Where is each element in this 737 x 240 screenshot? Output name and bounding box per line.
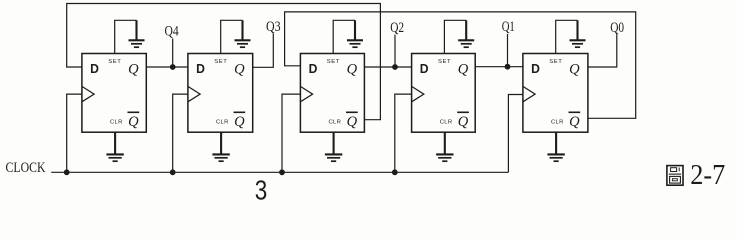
D flip-flop U5	[523, 54, 588, 133]
svg-text:Q4: Q4	[165, 24, 179, 40]
wire node Q1 tap	[507, 34, 509, 67]
svg-text:SET: SET	[214, 59, 227, 65]
svg-text:Q: Q	[234, 62, 245, 78]
wire Q U4 to D U5	[475, 66, 523, 68]
node CLOCK label	[6, 160, 47, 176]
ground (CLR U2)	[212, 132, 229, 161]
U1 body	[82, 54, 146, 133]
wire Q U2 to node Q3	[253, 34, 274, 68]
wire SET U1 to ground	[115, 20, 137, 53]
svg-text:Q: Q	[128, 62, 139, 78]
svg-text:SET: SET	[108, 59, 121, 65]
ground (CLR U4)	[436, 132, 453, 161]
node Q0 label	[610, 20, 624, 36]
svg-text:Q: Q	[458, 114, 469, 130]
wire CLOCK bus	[51, 171, 508, 173]
wire CLOCK to clk U5	[508, 95, 523, 173]
svg-text:SET: SET	[438, 59, 451, 65]
ground (CLR U5)	[547, 132, 564, 161]
svg-text:D: D	[531, 61, 540, 76]
svg-text:Q3: Q3	[266, 19, 281, 35]
svg-text:CLR: CLR	[110, 119, 123, 125]
node clk U1 junction	[64, 169, 70, 175]
svg-text:CLR: CLR	[551, 119, 564, 125]
ground (SET U4)	[458, 20, 474, 47]
svg-text:D: D	[90, 61, 99, 76]
svg-text:CLR: CLR	[329, 119, 342, 125]
U2 clock input triangle	[188, 86, 200, 101]
wire SET U5 to ground	[556, 20, 578, 53]
wire SET U3 to ground	[333, 20, 355, 53]
node Q3 label	[266, 19, 281, 35]
node Q1 label	[502, 19, 515, 35]
node clk U4 junction	[392, 169, 398, 175]
node clk U2 junction	[170, 169, 176, 175]
wire Q U3 to D U4	[364, 66, 411, 68]
caption 2-7	[690, 159, 725, 191]
svg-text:Q: Q	[458, 62, 469, 78]
node Q4 junction	[170, 64, 176, 70]
svg-text:CLR: CLR	[440, 119, 453, 125]
node clk U3 junction	[279, 169, 285, 175]
svg-text:Q: Q	[347, 114, 358, 130]
wire CLOCK to clk U4	[395, 94, 412, 172]
D flip-flop U2	[188, 54, 253, 133]
svg-text:3: 3	[255, 175, 267, 205]
U3 body	[300, 54, 364, 133]
ground (SET U5)	[570, 20, 586, 47]
wire node Q2 tap	[394, 35, 396, 67]
D flip-flop U1	[82, 54, 146, 133]
wire Q U1 to D U2	[146, 66, 188, 68]
wire CLOCK to clk U2	[173, 94, 188, 172]
wire feedback Q-bar U3 to D U1	[67, 4, 381, 120]
U2 body	[188, 54, 253, 133]
ground (CLR U3)	[325, 132, 342, 161]
caption figure character	[667, 166, 683, 186]
svg-text:Q1: Q1	[502, 19, 515, 35]
U3 clock input triangle	[300, 86, 312, 101]
ground (CLR U1)	[106, 132, 123, 161]
U4 clock input triangle	[412, 86, 424, 101]
svg-text:SET: SET	[327, 59, 340, 65]
U5 body	[523, 54, 588, 133]
node Q2 junction	[392, 64, 398, 70]
svg-text:2-7: 2-7	[690, 159, 725, 191]
U5 clock input triangle	[523, 86, 535, 101]
node Q4 label	[165, 24, 179, 40]
svg-text:Q: Q	[128, 114, 139, 130]
U4 body	[412, 54, 476, 133]
U1 clock input triangle	[82, 86, 94, 101]
svg-text:D: D	[420, 61, 429, 76]
ground (SET U1)	[129, 20, 145, 47]
wire SET U4 to ground	[444, 20, 466, 53]
D flip-flop U3	[300, 54, 364, 133]
wire SET U2 to ground	[221, 20, 243, 53]
svg-text:Q2: Q2	[390, 20, 404, 36]
svg-text:CLR: CLR	[216, 119, 229, 125]
svg-text:CLOCK: CLOCK	[6, 160, 47, 176]
node Q1 junction	[505, 64, 511, 70]
wire node Q4 tap	[172, 39, 174, 68]
wire Q U5 to node Q0	[588, 34, 617, 67]
ground (SET U2)	[235, 20, 251, 47]
svg-text:SET: SET	[549, 59, 562, 65]
svg-text:Q: Q	[569, 62, 580, 78]
svg-text:D: D	[196, 61, 205, 76]
svg-text:Q: Q	[569, 114, 580, 130]
wire feedback Q-bar U5 to D U3	[285, 12, 636, 118]
page number 3	[255, 175, 267, 206]
svg-text:Q0: Q0	[610, 20, 624, 36]
wire CLOCK to clk U1	[67, 94, 82, 172]
svg-text:Q: Q	[347, 62, 358, 78]
svg-text:D: D	[309, 61, 318, 76]
wire CLOCK to clk U3	[282, 94, 300, 172]
ground (SET U3)	[347, 20, 363, 47]
node Q2 label	[390, 20, 404, 36]
D flip-flop U4	[412, 54, 476, 133]
svg-text:Q: Q	[234, 114, 245, 130]
